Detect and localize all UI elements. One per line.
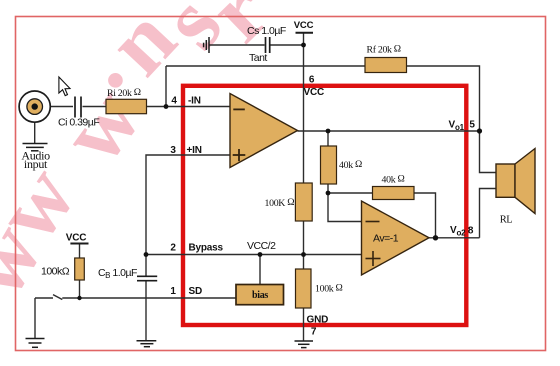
resistor 40k feedback — [373, 187, 415, 200]
resistor Rf — [365, 58, 407, 73]
svg-text:5: 5 — [469, 120, 475, 131]
wire feedback rail left of Rf — [166, 65, 365, 67]
svg-text:100k Ω: 100k Ω — [315, 283, 343, 295]
resistor 40k upper — [321, 146, 337, 184]
wire Cs to VCC node — [271, 44, 304, 46]
wire Vo1 down to speaker — [480, 131, 497, 173]
op-amp U1 — [230, 94, 298, 168]
svg-text:8: 8 — [468, 226, 474, 237]
wire +IN to bypass node — [146, 155, 230, 255]
switch blade SW1 — [53, 295, 62, 300]
wire switch left lead — [35, 297, 53, 299]
wire node to 40k feedback — [328, 192, 373, 194]
wire CB top stem — [145, 255, 147, 277]
node bias junction — [258, 252, 263, 257]
svg-text:SD: SD — [189, 286, 203, 297]
svg-text:6: 6 — [309, 75, 315, 86]
svg-text:Tant: Tant — [249, 52, 267, 64]
svg-text:VCC: VCC — [294, 20, 314, 31]
wire 100K to bypass rail — [303, 221, 305, 255]
wire 100k resistor to SD node — [79, 280, 81, 298]
svg-text:GND: GND — [307, 315, 329, 326]
capacitor Ci — [75, 97, 81, 118]
svg-text:3: 3 — [170, 145, 176, 156]
bias block — [236, 285, 284, 305]
svg-text:100K Ω: 100K Ω — [265, 197, 295, 209]
svg-text:1: 1 — [170, 286, 176, 297]
wire U2 output to Vo2 — [429, 237, 480, 239]
svg-text:Vo2: Vo2 — [450, 225, 466, 238]
wire feedback rail right of Rf down to Vo1 — [407, 66, 480, 131]
node U1 output junction — [326, 129, 331, 134]
wire U1 output to Vo1 — [298, 130, 480, 132]
ground (pin 7) — [295, 341, 314, 348]
audio input jack J1 — [19, 91, 50, 122]
speaker RL — [496, 149, 535, 214]
svg-text:+IN: +IN — [187, 145, 202, 156]
wire top gnd to Cs — [210, 44, 265, 46]
svg-text:40k Ω: 40k Ω — [382, 174, 405, 186]
node divider bypass junction — [301, 252, 306, 257]
op-amp U2 Av=-1 — [362, 201, 430, 275]
svg-text:Vo1: Vo1 — [449, 120, 465, 133]
svg-text:4: 4 — [171, 96, 177, 107]
svg-text:RL: RL — [500, 215, 513, 226]
svg-text:VCC/2: VCC/2 — [247, 240, 276, 252]
wire VCC bar stem — [303, 33, 305, 45]
wire 40k upper stem bottom — [327, 184, 329, 193]
svg-text:Ci 0.39µF: Ci 0.39µF — [58, 117, 99, 129]
node SD junction — [77, 296, 81, 300]
wire VCC bar to 100k resistor — [79, 244, 81, 259]
svg-text:2: 2 — [170, 243, 176, 254]
svg-text:VCC: VCC — [304, 87, 325, 98]
capacitor CB — [137, 276, 157, 280]
node -IN junction — [164, 104, 169, 109]
wire Vo2 up to speaker — [480, 189, 497, 238]
mouse cursor — [59, 77, 70, 96]
wire 100k lower to ground pin 7 — [303, 308, 305, 341]
svg-text:bias: bias — [252, 290, 268, 301]
resistor 100K divider upper — [295, 183, 312, 221]
node VCC top junction — [301, 43, 306, 48]
VCC symbol top — [294, 20, 314, 33]
wire bypass rail — [146, 254, 362, 256]
ground (CB) — [137, 341, 157, 347]
resistor Ri — [106, 99, 147, 113]
wire switch to ground — [34, 298, 36, 339]
svg-text:Ri 20k Ω: Ri 20k Ω — [107, 87, 141, 99]
svg-text:Cs 1.0µF: Cs 1.0µF — [247, 25, 286, 37]
wire bias stem — [259, 255, 261, 285]
svg-text:7: 7 — [311, 327, 317, 338]
IC boundary red rectangle — [183, 86, 466, 325]
ground (top, for Cs) sideways — [204, 37, 209, 53]
svg-text:40k Ω: 40k Ω — [339, 159, 362, 171]
node Vo1 junction — [477, 128, 482, 133]
ground (audio input) — [23, 144, 48, 151]
VCC symbol left — [66, 233, 89, 244]
watermark www.ns — [0, 0, 287, 313]
capacitor Cs — [266, 37, 270, 53]
svg-text:Av=-1: Av=-1 — [373, 233, 399, 245]
svg-text:VCC: VCC — [66, 233, 87, 244]
wire SD line — [62, 297, 236, 299]
wire Ri to op-amp U1 -IN — [147, 106, 231, 108]
wire 40k upper stem top — [327, 131, 329, 146]
wire jack to Ci — [51, 106, 74, 108]
svg-text:Bypass: Bypass — [189, 243, 224, 254]
ground (switch) — [26, 339, 45, 348]
wire CB bottom stem to ground — [145, 282, 147, 341]
wire jack ground stem — [34, 122, 36, 144]
svg-text:input: input — [24, 157, 48, 171]
node bypass CB junction — [144, 252, 149, 257]
wire divider to 100k lower — [303, 255, 305, 270]
node U2 output junction — [433, 235, 438, 240]
wire -IN node up to feedback rail — [165, 66, 167, 107]
svg-text:-IN: -IN — [188, 96, 201, 107]
svg-text:Rf 20k Ω: Rf 20k Ω — [367, 44, 401, 56]
resistor 100k divider lower — [296, 269, 312, 308]
wire 40k feedback to U2 output — [414, 193, 436, 238]
wire VCC node down to 100K — [303, 45, 305, 183]
svg-text:CB 1.0µF: CB 1.0µF — [98, 267, 137, 280]
node 40k bottom junction — [326, 191, 331, 196]
wire node down to U2 -IN — [328, 193, 362, 222]
resistor 100k shutdown pullup — [75, 258, 85, 280]
svg-text:100kΩ: 100kΩ — [41, 266, 70, 278]
wire Ci to Ri — [83, 106, 107, 108]
